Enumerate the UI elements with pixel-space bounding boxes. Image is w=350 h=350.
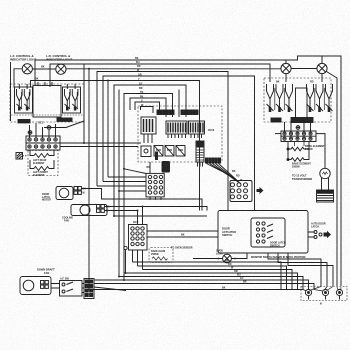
wire OC2 down 2 bbox=[137, 250, 139, 266]
wires TB1 to switches bbox=[30, 123, 56, 138]
label M2 wires bbox=[106, 206, 110, 213]
svg-text:OC2: OC2 bbox=[133, 220, 139, 224]
inner latch box bbox=[251, 218, 285, 247]
bake element R4 bbox=[287, 149, 309, 161]
indicator lamp DS3 bbox=[281, 63, 291, 73]
switch S2 finger a bbox=[65, 89, 71, 111]
bolt circle 2 bbox=[47, 126, 51, 130]
switch S2 finger b bbox=[72, 89, 78, 111]
label fan wires bbox=[232, 170, 243, 182]
connector bar OC1b bbox=[57, 118, 72, 121]
terminal N bbox=[322, 289, 328, 299]
wire bus line 8 bbox=[178, 90, 180, 118]
ground chassis bbox=[16, 153, 27, 160]
oven light DS5 bbox=[223, 254, 232, 263]
wire bus line 12 bbox=[141, 107, 154, 114]
heating element R1 bbox=[30, 150, 54, 158]
arrow out RB1 bbox=[257, 187, 264, 194]
label door actuated switch bbox=[222, 227, 236, 238]
wires AF to strip bbox=[82, 284, 84, 293]
svg-text:OR: OR bbox=[138, 73, 142, 76]
svg-text:TN: TN bbox=[140, 91, 143, 94]
terminal slant fan bbox=[303, 287, 341, 292]
svg-text:RD: RD bbox=[310, 81, 314, 84]
wire bus line 7 bbox=[114, 85, 186, 216]
wire stubs S1 top bbox=[19, 84, 75, 89]
label bottom wires bbox=[222, 259, 247, 290]
wire lamp to TB2 bbox=[316, 134, 325, 169]
cooling fan M2 bbox=[71, 205, 107, 216]
wire fan diagonals bbox=[207, 164, 242, 185]
pins under J2 bbox=[168, 134, 186, 138]
wires OC4 bottom pins bbox=[150, 197, 161, 199]
bake element dashed box bbox=[149, 248, 173, 263]
wire TB1 right runs bbox=[60, 143, 141, 147]
box bottom corner 3 bbox=[288, 253, 333, 286]
latch contacts bbox=[267, 224, 273, 239]
bottom bus y280 bbox=[94, 280, 309, 289]
terminal block TB2 bbox=[281, 131, 316, 142]
terminal L1 bbox=[305, 289, 311, 299]
wire OC4 top stub bbox=[149, 162, 151, 173]
relay K1 bbox=[154, 146, 163, 161]
svg-text:SWITCH: SWITCH bbox=[222, 233, 232, 237]
wire right edge long bbox=[286, 56, 322, 63]
bottom bus y283 bbox=[94, 284, 314, 290]
label L.F. control bbox=[10, 54, 36, 62]
wire bus line 10 bbox=[130, 98, 166, 117]
svg-text:N: N bbox=[320, 303, 322, 306]
svg-text:INDICATOR LIGHT: INDICATOR LIGHT bbox=[10, 58, 36, 62]
svg-text:BK: BK bbox=[83, 188, 87, 191]
svg-text:FAN: FAN bbox=[44, 271, 49, 275]
bottom bus y266 bbox=[138, 266, 287, 290]
label right sw wires bbox=[276, 81, 314, 84]
switch S3 finger a bbox=[267, 84, 274, 112]
svg-text:RD: RD bbox=[236, 175, 240, 178]
label door latch motor bbox=[42, 193, 51, 202]
air flow switch bbox=[60, 278, 83, 297]
indicator lamp DS2 bbox=[56, 64, 66, 74]
svg-text:RD: RD bbox=[137, 65, 141, 68]
wire left edge bbox=[10, 62, 12, 121]
relay K3 bbox=[176, 146, 185, 157]
pin circle extra bbox=[124, 246, 127, 249]
wire TB2 resistor stubs bbox=[295, 141, 305, 146]
pins under J3 bbox=[191, 134, 202, 138]
svg-text:BK: BK bbox=[181, 234, 185, 237]
svg-text:BK: BK bbox=[232, 170, 236, 173]
label transformer bbox=[292, 174, 312, 181]
connector block OC4 bbox=[146, 173, 164, 197]
svg-text:LATCH: LATCH bbox=[311, 225, 319, 228]
switch S3 finger b bbox=[276, 84, 283, 112]
broil element R3 bbox=[287, 142, 309, 151]
wires bars to TB2 bbox=[285, 122, 311, 132]
wire M2 out top bbox=[105, 207, 143, 225]
wire OC2 down 1 bbox=[132, 250, 134, 262]
right control dashed box bbox=[264, 78, 331, 122]
wire label column bbox=[135, 57, 144, 107]
box bottom corner 1 bbox=[268, 253, 321, 286]
wire TB2 left stub bbox=[275, 133, 281, 135]
wire bus line 6 bbox=[31, 81, 200, 211]
svg-text:BK: BK bbox=[225, 259, 229, 262]
svg-text:2585W: 2585W bbox=[292, 165, 300, 168]
pin row P3 bbox=[206, 158, 221, 163]
svg-text:TRANSFORMER: TRANSFORMER bbox=[292, 177, 312, 181]
switch internal stems left bbox=[22, 92, 78, 108]
latch pins bbox=[256, 222, 265, 243]
wire M1 out bbox=[82, 189, 203, 211]
wire bus line 5 bbox=[103, 76, 255, 211]
control body box bbox=[33, 82, 61, 117]
svg-text:BU: BU bbox=[136, 61, 140, 64]
svg-text:BK: BK bbox=[222, 287, 226, 290]
door latch motor M1 bbox=[56, 187, 73, 200]
svg-text:BK: BK bbox=[106, 206, 110, 209]
svg-text:BK: BK bbox=[135, 57, 139, 60]
terminal strip TB1 bbox=[26, 136, 60, 150]
bottom bus y262 bbox=[133, 262, 282, 290]
big control box bbox=[218, 211, 308, 254]
wire bus line 1 bbox=[35, 56, 341, 286]
terminal L2 bbox=[336, 289, 342, 299]
heating element R2 bbox=[30, 160, 54, 171]
wire diag console bbox=[124, 169, 146, 174]
wire DS4 diag bbox=[327, 72, 338, 287]
svg-text:BK: BK bbox=[35, 77, 39, 80]
wire DS3 stub bbox=[285, 74, 287, 82]
switch S1 housing bbox=[15, 87, 33, 113]
svg-text:BR: BR bbox=[139, 87, 143, 90]
svg-text:FAN: FAN bbox=[64, 219, 69, 222]
wire y177 run bbox=[108, 176, 146, 178]
transformer T1 bbox=[196, 141, 204, 167]
label cooling fan bbox=[62, 217, 73, 223]
component dark U3 bbox=[162, 162, 170, 173]
label oven light bbox=[216, 250, 224, 256]
svg-text:BR: BR bbox=[243, 281, 247, 284]
wire TB1 diag bbox=[44, 121, 84, 128]
label door latch switch bbox=[270, 242, 286, 248]
svg-text:ELEMENT: ELEMENT bbox=[33, 162, 45, 165]
label bake element bbox=[292, 163, 311, 169]
wire x89 long bbox=[88, 69, 90, 290]
indicator lamp DS1 bbox=[22, 64, 32, 74]
svg-text:PK: PK bbox=[140, 95, 144, 98]
switch S4 finger b bbox=[316, 84, 323, 112]
wire bus line 2 bbox=[50, 64, 270, 87]
relay K2 bbox=[165, 146, 174, 157]
svg-text:BK: BK bbox=[276, 81, 280, 84]
oven lamp DS6 bbox=[317, 168, 334, 202]
switch S1 finger b bbox=[24, 89, 30, 111]
switch S3 finger c bbox=[286, 84, 293, 112]
indicator lamp DS4 bbox=[317, 63, 327, 73]
wire bus line 11 bbox=[135, 102, 160, 113]
label M1 wires bbox=[83, 188, 87, 195]
console dashed box bbox=[138, 106, 222, 162]
label left rear element bbox=[33, 159, 47, 165]
pin header P2 bbox=[181, 110, 198, 115]
wire M2 out bot bbox=[105, 211, 138, 225]
svg-text:OC3: OC3 bbox=[208, 128, 215, 132]
pin header P1 bbox=[157, 110, 174, 115]
connector M2 bbox=[97, 205, 105, 213]
wires fan to AF bbox=[51, 284, 60, 289]
power terminals dashed box bbox=[301, 287, 347, 301]
wire bus line 9 bbox=[124, 94, 173, 281]
wire y181 run bbox=[103, 181, 146, 183]
left control dashed box bbox=[10, 84, 84, 122]
connector block J1 bbox=[141, 117, 156, 143]
wire y191 run bbox=[118, 90, 120, 277]
right lamps wire gap bbox=[291, 68, 317, 70]
connector bar OC1a bbox=[18, 120, 30, 123]
wire DS4 stub bbox=[321, 74, 323, 82]
switch S2 housing bbox=[63, 87, 81, 113]
latch motor pins bbox=[314, 231, 322, 239]
label broil element bbox=[305, 145, 325, 151]
wire x84 bbox=[83, 64, 85, 143]
bottom long line bbox=[89, 289, 303, 291]
bolt circle right bbox=[296, 126, 300, 130]
connector block J3 bbox=[189, 121, 205, 134]
bottom bus y269 bbox=[143, 270, 293, 290]
dots OC4 bottom bbox=[149, 198, 162, 200]
down draft fan M3 bbox=[20, 277, 51, 295]
wire oven light bbox=[193, 253, 247, 259]
svg-text:ELEMENT: ELEMENT bbox=[33, 174, 45, 177]
bottom bus y273 bbox=[126, 273, 298, 290]
bolt circle bbox=[28, 131, 32, 135]
svg-text:A.F. SW.: A.F. SW. bbox=[60, 278, 70, 281]
label left front element bbox=[33, 171, 48, 177]
wire OC2 right runs bbox=[147, 231, 218, 237]
wire box to latch bbox=[308, 232, 314, 237]
connector M1 bbox=[74, 187, 81, 195]
box bottom corner 2 bbox=[278, 253, 327, 286]
wire y186 run bbox=[97, 185, 146, 187]
connector bar right b bbox=[291, 118, 313, 123]
wire y216 run bbox=[114, 215, 207, 217]
svg-text:LIGHT: LIGHT bbox=[216, 252, 224, 255]
switch S4 finger a bbox=[307, 84, 314, 112]
switch S4 finger c bbox=[326, 84, 333, 112]
connector strip AF bbox=[84, 279, 94, 299]
relay board RB1 bbox=[230, 181, 252, 202]
bottom bus y276 bbox=[119, 277, 303, 290]
svg-text:BK: BK bbox=[41, 66, 45, 69]
wire strip diag bbox=[94, 287, 126, 291]
wire OC2 down 3 bbox=[142, 250, 144, 270]
wire pin extra down bbox=[125, 250, 127, 273]
wire DS1 left lead bbox=[14, 69, 22, 88]
dot oven light bbox=[218, 258, 220, 260]
down draft fan label bbox=[37, 268, 55, 275]
wire bus line 3 bbox=[66, 68, 281, 70]
switch S1 finger a bbox=[17, 89, 23, 111]
label auto door latch bbox=[311, 223, 326, 229]
connector bar right a bbox=[271, 118, 281, 122]
wire y207 to box bbox=[143, 207, 208, 211]
dashed row bbox=[11, 114, 83, 116]
svg-text:SWITCH: SWITCH bbox=[270, 244, 280, 247]
arrow auto latch bbox=[324, 231, 332, 238]
dot oven light b bbox=[234, 258, 236, 260]
svg-text:GY: GY bbox=[139, 82, 143, 85]
connector block J2 bbox=[166, 121, 187, 134]
connector OC2 bbox=[129, 225, 148, 251]
mid box bbox=[296, 88, 308, 118]
svg-text:OC1: OC1 bbox=[38, 121, 44, 125]
label L.R. control bbox=[46, 54, 72, 62]
switch internal stems right bbox=[275, 88, 325, 110]
wire stub x108 bbox=[107, 81, 109, 178]
relay K0 bbox=[141, 146, 151, 157]
svg-text:TO OVEN SENSOR: TO OVEN SENSOR bbox=[171, 247, 193, 250]
wire bus line 4 bbox=[97, 72, 228, 211]
wire DS1-DS2 bbox=[32, 68, 55, 70]
element dashed box bbox=[28, 151, 58, 176]
svg-text:MOTOR: MOTOR bbox=[42, 199, 51, 202]
svg-text:2585W: 2585W bbox=[151, 253, 159, 256]
